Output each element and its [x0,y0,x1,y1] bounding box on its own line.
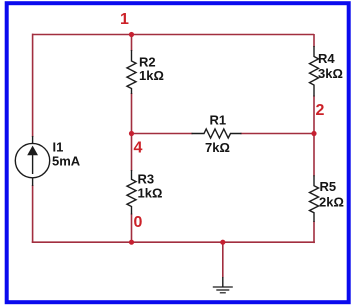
wire R4 bottom to node2 to R5 top [313,96,315,177]
svg-text:2: 2 [316,102,325,119]
resistor R3 body [127,170,136,215]
wire ground branch [222,242,224,277]
current source I1 arrow shaft [32,153,34,174]
ground bar 1 [213,286,233,288]
svg-text:1: 1 [120,11,129,28]
junction dot ground [220,240,225,245]
wire R2 top stub [131,35,133,52]
wire right vertical top stub (to R4) [313,34,315,47]
current source I1 arrowhead [27,146,38,156]
junction dot node 2 [311,131,316,136]
junction dot node 1 [129,32,134,37]
wire R1 right to node 2 [241,133,315,135]
junction dot node 0 [129,240,134,245]
svg-text:2kΩ: 2kΩ [319,195,344,210]
svg-text:R4: R4 [318,51,335,66]
current source I1 circle [15,143,49,177]
ground bar 3 [220,292,226,294]
svg-text:5mA: 5mA [52,154,81,169]
wire left vertical lower (I1 to bottom) [32,185,34,242]
svg-text:R3: R3 [138,172,155,187]
resistor R4 body [310,46,319,97]
current source I1 pins [32,136,34,144]
svg-text:0: 0 [134,214,143,231]
wire R5 bottom to bottom rail [313,221,315,243]
wire R3 bottom to node 0 rail [131,214,133,243]
svg-text:3kΩ: 3kΩ [318,66,343,81]
svg-text:I1: I1 [53,140,64,155]
resistor R2 body [127,50,136,94]
ground stub [222,277,224,287]
svg-text:1kΩ: 1kΩ [138,186,163,201]
wire R2 bottom to node 4 [131,93,133,134]
wire left vertical upper (to I1) [32,34,34,137]
svg-text:7kΩ: 7kΩ [205,140,230,155]
svg-text:R5: R5 [320,179,337,194]
svg-text:1kΩ: 1kΩ [139,68,164,83]
wire node4 to R3 [131,134,133,172]
wire node4 to R1 left [132,133,193,135]
svg-text:4: 4 [134,140,143,157]
resistor R1 body (horizontal) [192,129,242,138]
ground bar 2 [216,289,229,291]
wire top: node1 rail [33,34,314,36]
resistor R5 body [310,175,319,222]
svg-text:R1: R1 [210,113,227,128]
junction dot node 4 [129,131,134,136]
wire bottom rail (node 0) [32,241,315,243]
